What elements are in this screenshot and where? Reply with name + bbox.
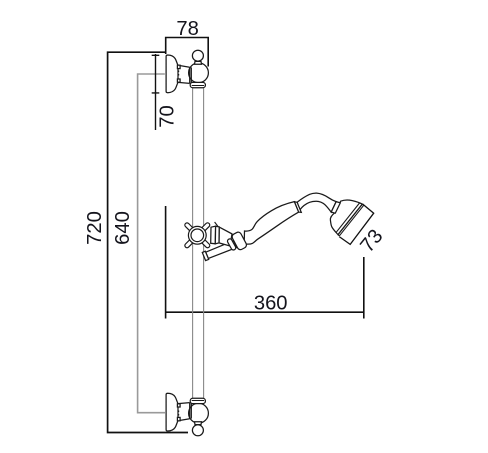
svg-text:640: 640 [112,211,134,245]
svg-text:70: 70 [156,105,178,127]
svg-text:720: 720 [84,211,106,245]
svg-text:78: 78 [176,18,198,40]
svg-text:360: 360 [254,293,288,315]
